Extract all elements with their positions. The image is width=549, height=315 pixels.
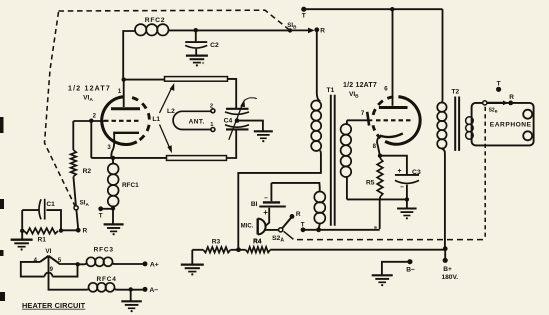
svg-text:RFC1: RFC1 — [122, 182, 139, 189]
svg-text:HEATER CIRCUIT: HEATER CIRCUIT — [22, 301, 86, 310]
svg-text:1/2 12AT7: 1/2 12AT7 — [343, 82, 377, 89]
svg-text:R: R — [83, 228, 88, 235]
svg-text:ANT.: ANT. — [189, 119, 205, 126]
svg-text:C3: C3 — [412, 169, 421, 176]
svg-text:180V.: 180V. — [441, 274, 458, 281]
svg-text:+: + — [263, 208, 268, 217]
svg-text:R5: R5 — [366, 180, 375, 187]
svg-text:2: 2 — [210, 103, 213, 109]
svg-text:EARPHONE: EARPHONE — [490, 122, 532, 129]
svg-text:R4: R4 — [253, 238, 262, 245]
svg-text:A+: A+ — [150, 262, 159, 269]
svg-text:BI: BI — [251, 201, 258, 208]
svg-text:R1: R1 — [37, 237, 46, 244]
svg-text:−: − — [264, 195, 268, 202]
svg-text:T: T — [301, 221, 305, 228]
svg-text:C2: C2 — [210, 42, 219, 49]
svg-text:R3: R3 — [212, 239, 221, 246]
svg-text:RFC4: RFC4 — [97, 276, 117, 283]
svg-text:R: R — [509, 94, 514, 101]
svg-text:R: R — [296, 211, 301, 218]
svg-text:T2: T2 — [451, 88, 459, 95]
svg-text:R2: R2 — [83, 168, 92, 175]
svg-text:MIC.: MIC. — [241, 223, 254, 229]
svg-text:T1: T1 — [327, 87, 335, 94]
svg-text:L1: L1 — [152, 116, 160, 123]
svg-text:T: T — [302, 13, 306, 20]
svg-text:+: + — [398, 168, 402, 175]
svg-text:T: T — [99, 213, 103, 220]
svg-text:RFC3: RFC3 — [94, 247, 114, 254]
svg-text:RFC2: RFC2 — [145, 17, 166, 24]
svg-text:T: T — [497, 80, 501, 87]
svg-text:L2: L2 — [167, 108, 175, 115]
svg-text:C1: C1 — [46, 201, 55, 208]
svg-text:1/2 12AT7: 1/2 12AT7 — [68, 85, 111, 92]
svg-text:R: R — [320, 28, 325, 35]
svg-text:B+: B+ — [443, 266, 452, 273]
svg-text:−: − — [400, 184, 404, 191]
svg-text:C4: C4 — [224, 118, 233, 125]
svg-text:A−: A− — [149, 287, 158, 294]
svg-text:B−: B− — [406, 267, 415, 274]
svg-text:VI: VI — [45, 248, 51, 255]
